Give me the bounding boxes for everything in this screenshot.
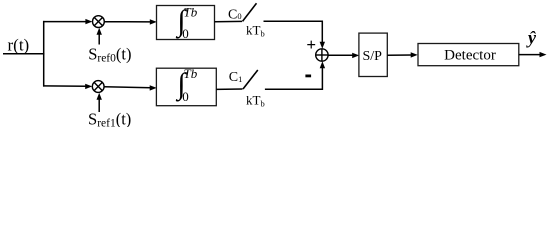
wire: integrator U0 to switch S0: [215, 20, 243, 22]
switch S0: [243, 3, 257, 21]
wire: switch S1 to summing junction: [265, 66, 323, 90]
svg-text:Tb: Tb: [184, 66, 198, 81]
multiplier M1: [92, 81, 104, 93]
integrator U1 box: [156, 68, 216, 106]
summing junction: [316, 49, 328, 61]
svg-text:Tb: Tb: [184, 5, 198, 20]
svg-text:+: +: [306, 35, 316, 54]
S/P box: [359, 33, 387, 76]
wire: multiplier M0 to integrator U0: [104, 21, 151, 23]
svg-text:Detector: Detector: [444, 48, 496, 64]
Sref1(t) input arrow: [98, 97, 100, 112]
switch S1: [243, 70, 258, 89]
wire: branch vertical: [43, 21, 45, 87]
svg-text:ŷ: ŷ: [526, 28, 537, 48]
wire: input line: [3, 53, 44, 55]
output arrow: [519, 54, 541, 56]
multiplier M0: [93, 16, 105, 28]
label -: [305, 75, 311, 78]
wire: top branch to multiplier: [43, 21, 87, 23]
integral symbol U0: [175, 4, 198, 41]
wire: switch S0 to summing junction: [264, 21, 323, 44]
svg-text:0: 0: [182, 26, 189, 41]
Sref0(t) input arrow: [98, 32, 100, 45]
svg-text:0: 0: [182, 89, 189, 104]
svg-text:S/P: S/P: [362, 49, 382, 64]
wire: bottom branch to multiplier M1: [43, 85, 87, 87]
wire: multiplier M1 to integrator U1: [104, 87, 151, 88]
wire: summing junction to S/P: [328, 54, 353, 56]
integrator U0 box: [157, 6, 215, 40]
integral symbol U1: [175, 66, 198, 104]
svg-text:r(t): r(t): [8, 36, 30, 55]
wire: integrator U1 to switch S1: [216, 88, 242, 90]
Detector box: [418, 44, 519, 66]
wire: S/P to Detector: [387, 54, 412, 56]
